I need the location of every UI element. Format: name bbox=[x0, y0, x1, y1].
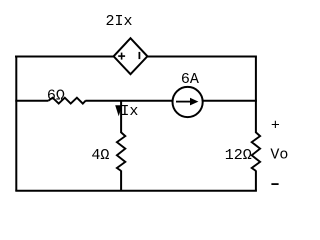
label - (bottom of Vo) bbox=[271, 183, 278, 185]
wire: top left segment to diamond bbox=[15, 56, 115, 58]
wire: top right segment from diamond to right corner bbox=[147, 56, 257, 58]
current arrow Ix (down triangle on branch wire) bbox=[115, 105, 122, 116]
wire: middle branch lower (4 ohm to bottom) bbox=[120, 171, 122, 191]
svg-text:Vo: Vo bbox=[270, 147, 288, 164]
svg-text:+: + bbox=[271, 118, 280, 135]
current source 6A (circle) bbox=[173, 87, 203, 117]
wire: middle horizontal left stub bbox=[15, 100, 48, 102]
svg-text:12Ω: 12Ω bbox=[225, 147, 252, 164]
wire: left vertical bbox=[15, 57, 17, 191]
arrow inside current source bbox=[176, 101, 191, 103]
minus mark (rotated bar) inside diamond bbox=[138, 52, 140, 59]
wire: middle branch upper (node to 4 ohm) bbox=[120, 101, 122, 134]
svg-text:6A: 6A bbox=[181, 71, 199, 88]
svg-text:Ix: Ix bbox=[120, 103, 138, 120]
resistor 12 ohm (zigzag on right wire) bbox=[252, 132, 260, 171]
wire: right vertical upper (to 12 ohm) bbox=[255, 57, 257, 134]
resistor 6 ohm (zigzag on middle wire) bbox=[48, 98, 85, 104]
wire: middle horizontal right segment bbox=[203, 100, 257, 102]
svg-text:2Ix: 2Ix bbox=[105, 13, 132, 30]
plus mark inside diamond bbox=[118, 53, 125, 60]
resistor 4 ohm (zigzag on middle branch) bbox=[117, 132, 125, 171]
svg-text:6Ω: 6Ω bbox=[47, 87, 65, 104]
wire: middle horizontal center segment bbox=[85, 100, 173, 102]
dependent voltage source 2Ix (diamond) bbox=[114, 38, 148, 74]
wire: bottom horizontal bbox=[15, 190, 257, 192]
wire: right vertical lower (below 12 ohm) bbox=[255, 171, 257, 191]
svg-text:4Ω: 4Ω bbox=[91, 147, 109, 164]
